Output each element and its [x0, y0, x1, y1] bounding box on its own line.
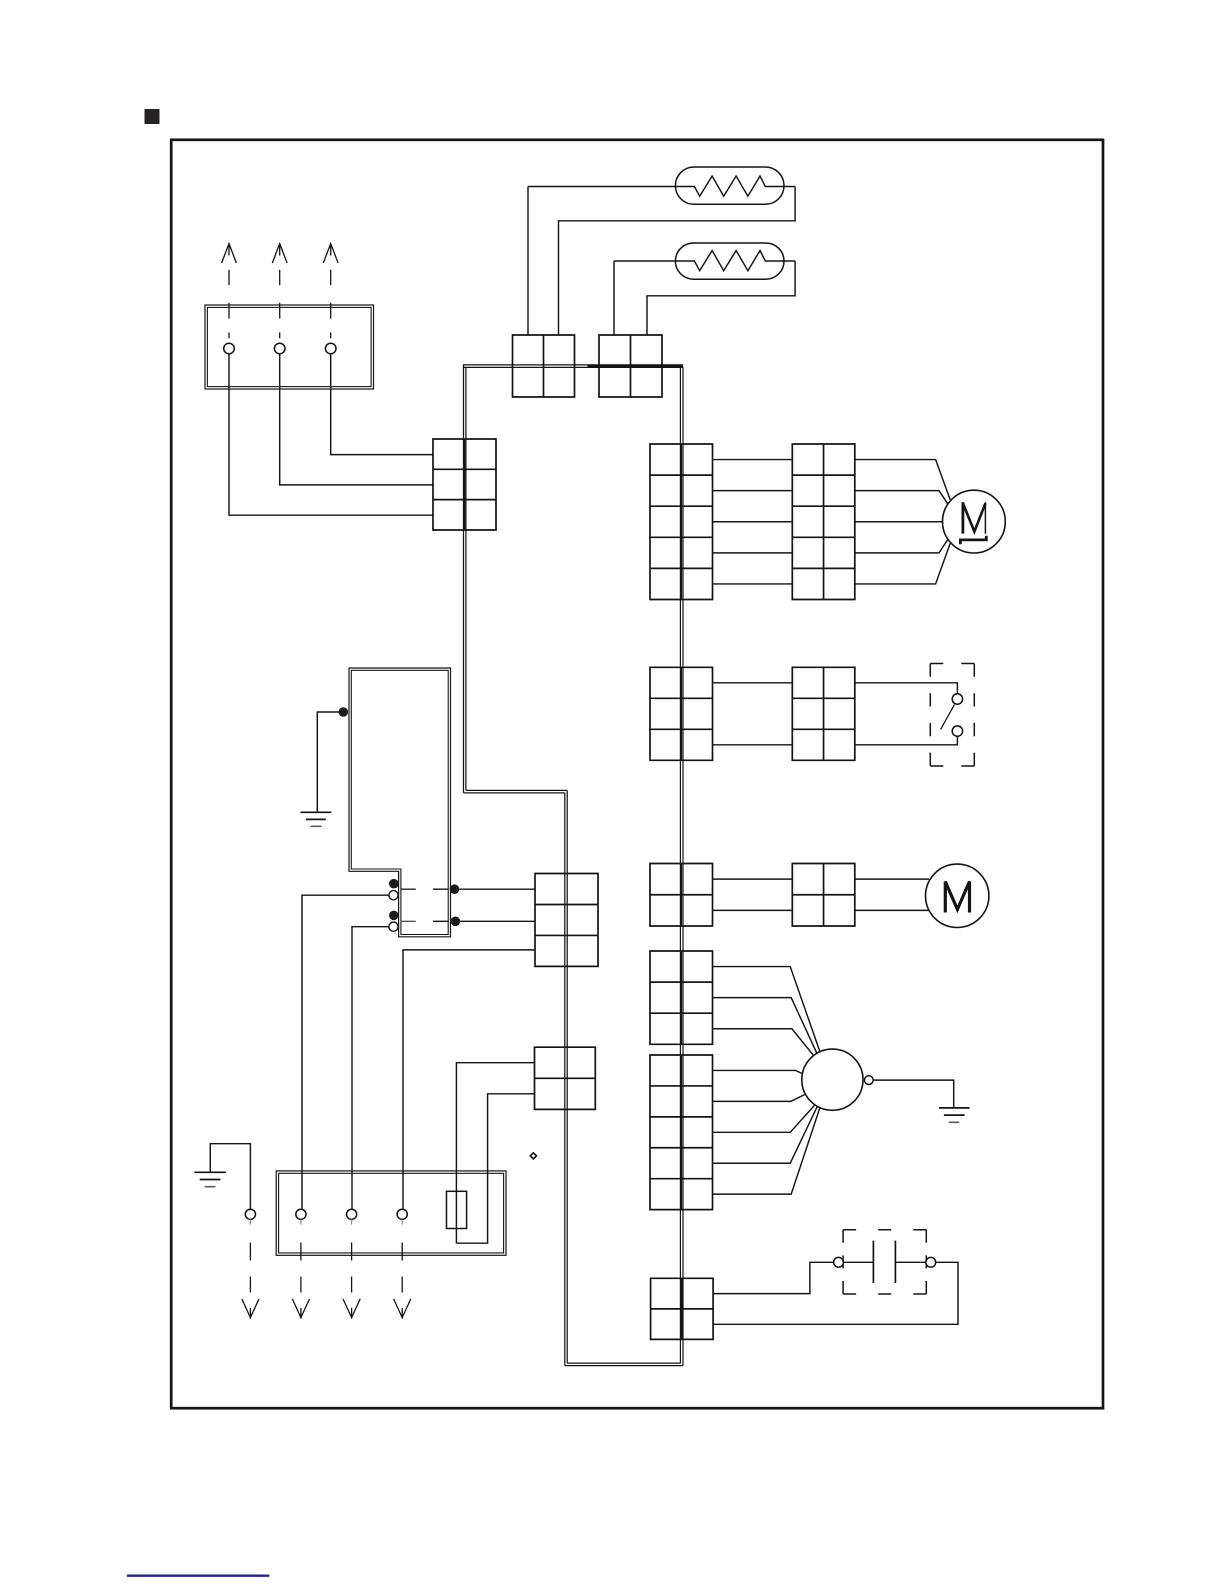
switch S1 lever — [941, 705, 955, 730]
X1 pin 2 — [296, 1209, 306, 1219]
wire CN-C2 row1 to motor M2 — [855, 878, 930, 880]
ground G2 — [194, 1171, 226, 1173]
connector CN-C — [650, 864, 713, 927]
wire R1 right lead — [559, 187, 796, 336]
heater R2 element wire — [614, 251, 795, 271]
X1 pin 3 — [347, 1209, 357, 1219]
heater R1 — [675, 167, 784, 204]
wire CN-C2 row2 to motor M2 — [855, 909, 930, 911]
wire ground to X1 pin1 — [210, 1144, 250, 1210]
wire CN-M2 row1 to fuse — [456, 1063, 534, 1244]
wire CN-A row2 to CN-A2 — [713, 490, 793, 492]
X1 arrow 2 (outgoing line) — [292, 1219, 309, 1318]
relay K1 terminal b3 — [451, 917, 461, 927]
heater R1 element wire — [528, 176, 795, 196]
fuse F1 — [447, 1191, 467, 1228]
section marker — [145, 109, 160, 124]
wire K1 b2 to X1 pin3 — [352, 927, 389, 1209]
wire CN-A2 row1 to motor M1 — [855, 460, 950, 500]
compressor plug P1 — [802, 1049, 863, 1110]
X1 arrow 4 (outgoing line) — [394, 1219, 411, 1318]
relay K1 coil terminal — [339, 707, 349, 717]
wire R2 right lead — [647, 261, 795, 335]
TB1 pin 2 — [274, 343, 285, 354]
wire CN-D row1 to plug — [713, 967, 820, 1052]
connector CN-B2 — [792, 667, 855, 760]
node marker — [530, 1153, 536, 1159]
relay K1 terminal b1 — [389, 911, 399, 921]
wire CN-M1 row3 to X1 pin4 — [403, 950, 535, 1209]
wire C1 to CN-F row2 — [713, 1262, 958, 1324]
wire CN-C row1 to CN-C2 — [713, 878, 793, 880]
wire fuse loop to CN-M2 row2 — [456, 1094, 534, 1243]
wire TB1 pin1 to CN-L row3 — [229, 354, 433, 515]
connector CN-C2 — [792, 864, 855, 927]
wire CN-A2 row3 to motor M1 — [855, 521, 943, 523]
wire K1 a2 to X1 pin2 — [302, 895, 389, 1209]
TB1 arrow 3 (incoming line) — [323, 244, 338, 339]
wire R1 left lead down — [527, 187, 529, 336]
harness right drop pair — [682, 367, 684, 1365]
motor M1 letter M — [962, 502, 965, 533]
wire R2 left lead down — [613, 261, 615, 335]
wire CN-A2 row5 to motor M1 — [855, 543, 950, 584]
wire CN-B2 row3 to S1 — [855, 736, 958, 745]
relay K1 terminal a2 — [389, 891, 398, 900]
wire CN-B row3 to CN-B2 — [713, 744, 793, 746]
wire K1 coil to ground — [317, 712, 343, 812]
harness bottom jog pair — [565, 1365, 683, 1367]
wire P1 to ground — [873, 1080, 954, 1108]
TB1 arrow 1 (incoming line) — [222, 244, 237, 339]
X1 arrow 1 (outgoing line) — [242, 1219, 259, 1318]
wire TB1 pin3 to CN-L row1 — [331, 354, 433, 455]
connector CN-M1 — [535, 874, 598, 967]
terminal box TB1 — [205, 305, 374, 389]
wire TB1 pin2 to CN-L row2 — [280, 354, 433, 485]
heater R2 — [675, 243, 784, 279]
motor M2 letter M — [945, 882, 969, 913]
harness bus top thick segment — [588, 365, 684, 369]
wire CN-E row2 to plug — [713, 1095, 805, 1102]
relay K1 body — [349, 668, 451, 937]
relay K1 terminal b2 — [389, 922, 398, 931]
wire CN-D row3 to plug — [713, 1029, 815, 1057]
wire CN-F row1 to C1 — [713, 1262, 834, 1293]
TB1 pin 3 — [325, 343, 336, 354]
capacitor C1 plates — [872, 1241, 874, 1283]
X1 arrow 3 (outgoing line) — [343, 1219, 360, 1318]
motor M2 — [926, 864, 989, 927]
ground G3 — [939, 1107, 970, 1109]
connector CN-M2 — [535, 1047, 596, 1109]
terminal box X1 — [276, 1171, 506, 1255]
wire CN-A row5 to CN-A2 — [713, 583, 793, 585]
capacitor C1 terminal right — [926, 1257, 936, 1267]
wire CN-A row4 to CN-A2 — [713, 552, 793, 554]
switch S1 contact bottom — [952, 726, 962, 736]
capacitor C1 terminal left — [834, 1257, 844, 1267]
switch S1 enclosure — [930, 664, 974, 767]
relay K1 contact segment a — [401, 888, 416, 890]
wire CN-B2 row1 to S1 — [855, 683, 958, 694]
harness mid drop pair — [564, 793, 566, 1366]
connector CN-B — [650, 667, 713, 760]
wire CN-A row3 to CN-A2 — [713, 521, 793, 523]
harness left drop pair — [463, 365, 465, 793]
wire K1 b3 to CN-M1 row2 — [460, 920, 535, 922]
motor M1 — [943, 490, 1006, 553]
wire CN-D row2 to plug — [713, 998, 818, 1054]
wire CN-A2 row4 to motor M1 — [855, 534, 952, 553]
wire CN-C row2 to CN-C2 — [713, 909, 793, 911]
connector CN-L — [433, 439, 496, 530]
wire CN-B row1 to CN-B2 — [713, 682, 793, 684]
motor M1 underline — [960, 536, 986, 545]
footer rule — [127, 1575, 269, 1577]
wire C1 left lead — [843, 1261, 873, 1263]
relay K1 contact segment b — [401, 920, 416, 922]
wire CN-A2 row2 to motor M1 — [855, 491, 952, 510]
TB1 pin 1 — [224, 343, 235, 354]
connector CN-D — [650, 951, 713, 1044]
wire CN-E row1 to plug — [713, 1070, 803, 1073]
connector CN-T2 — [599, 335, 662, 397]
harness left jog pair — [464, 792, 565, 794]
harness bus top pair — [463, 364, 683, 366]
capacitor C1 enclosure — [843, 1230, 926, 1294]
connector CN-T1 — [513, 335, 575, 397]
wire CN-E row4 to plug — [713, 1106, 818, 1163]
connector CN-E — [650, 1055, 713, 1210]
X1 pin 4 — [397, 1209, 407, 1219]
wire CN-E row3 to plug — [713, 1105, 815, 1132]
plug P1 pilot terminal — [864, 1076, 873, 1085]
X1 pin 1 — [245, 1209, 255, 1219]
ground G1 — [300, 811, 331, 813]
wire CN-A row1 to CN-A2 — [713, 459, 793, 461]
switch S1 contact top — [952, 694, 962, 704]
relay K1 terminal a1 — [389, 879, 399, 889]
connector CN-A — [650, 444, 713, 600]
wire CN-E row5 to plug — [713, 1108, 820, 1194]
connector CN-F — [651, 1278, 714, 1339]
TB1 arrow 2 (incoming line) — [272, 244, 287, 339]
wire K1 a3 to CN-M1 row1 — [459, 888, 535, 890]
connector CN-A2 — [792, 444, 855, 600]
relay K1 terminal a3 — [450, 884, 460, 894]
wire C1 right lead — [895, 1261, 926, 1263]
